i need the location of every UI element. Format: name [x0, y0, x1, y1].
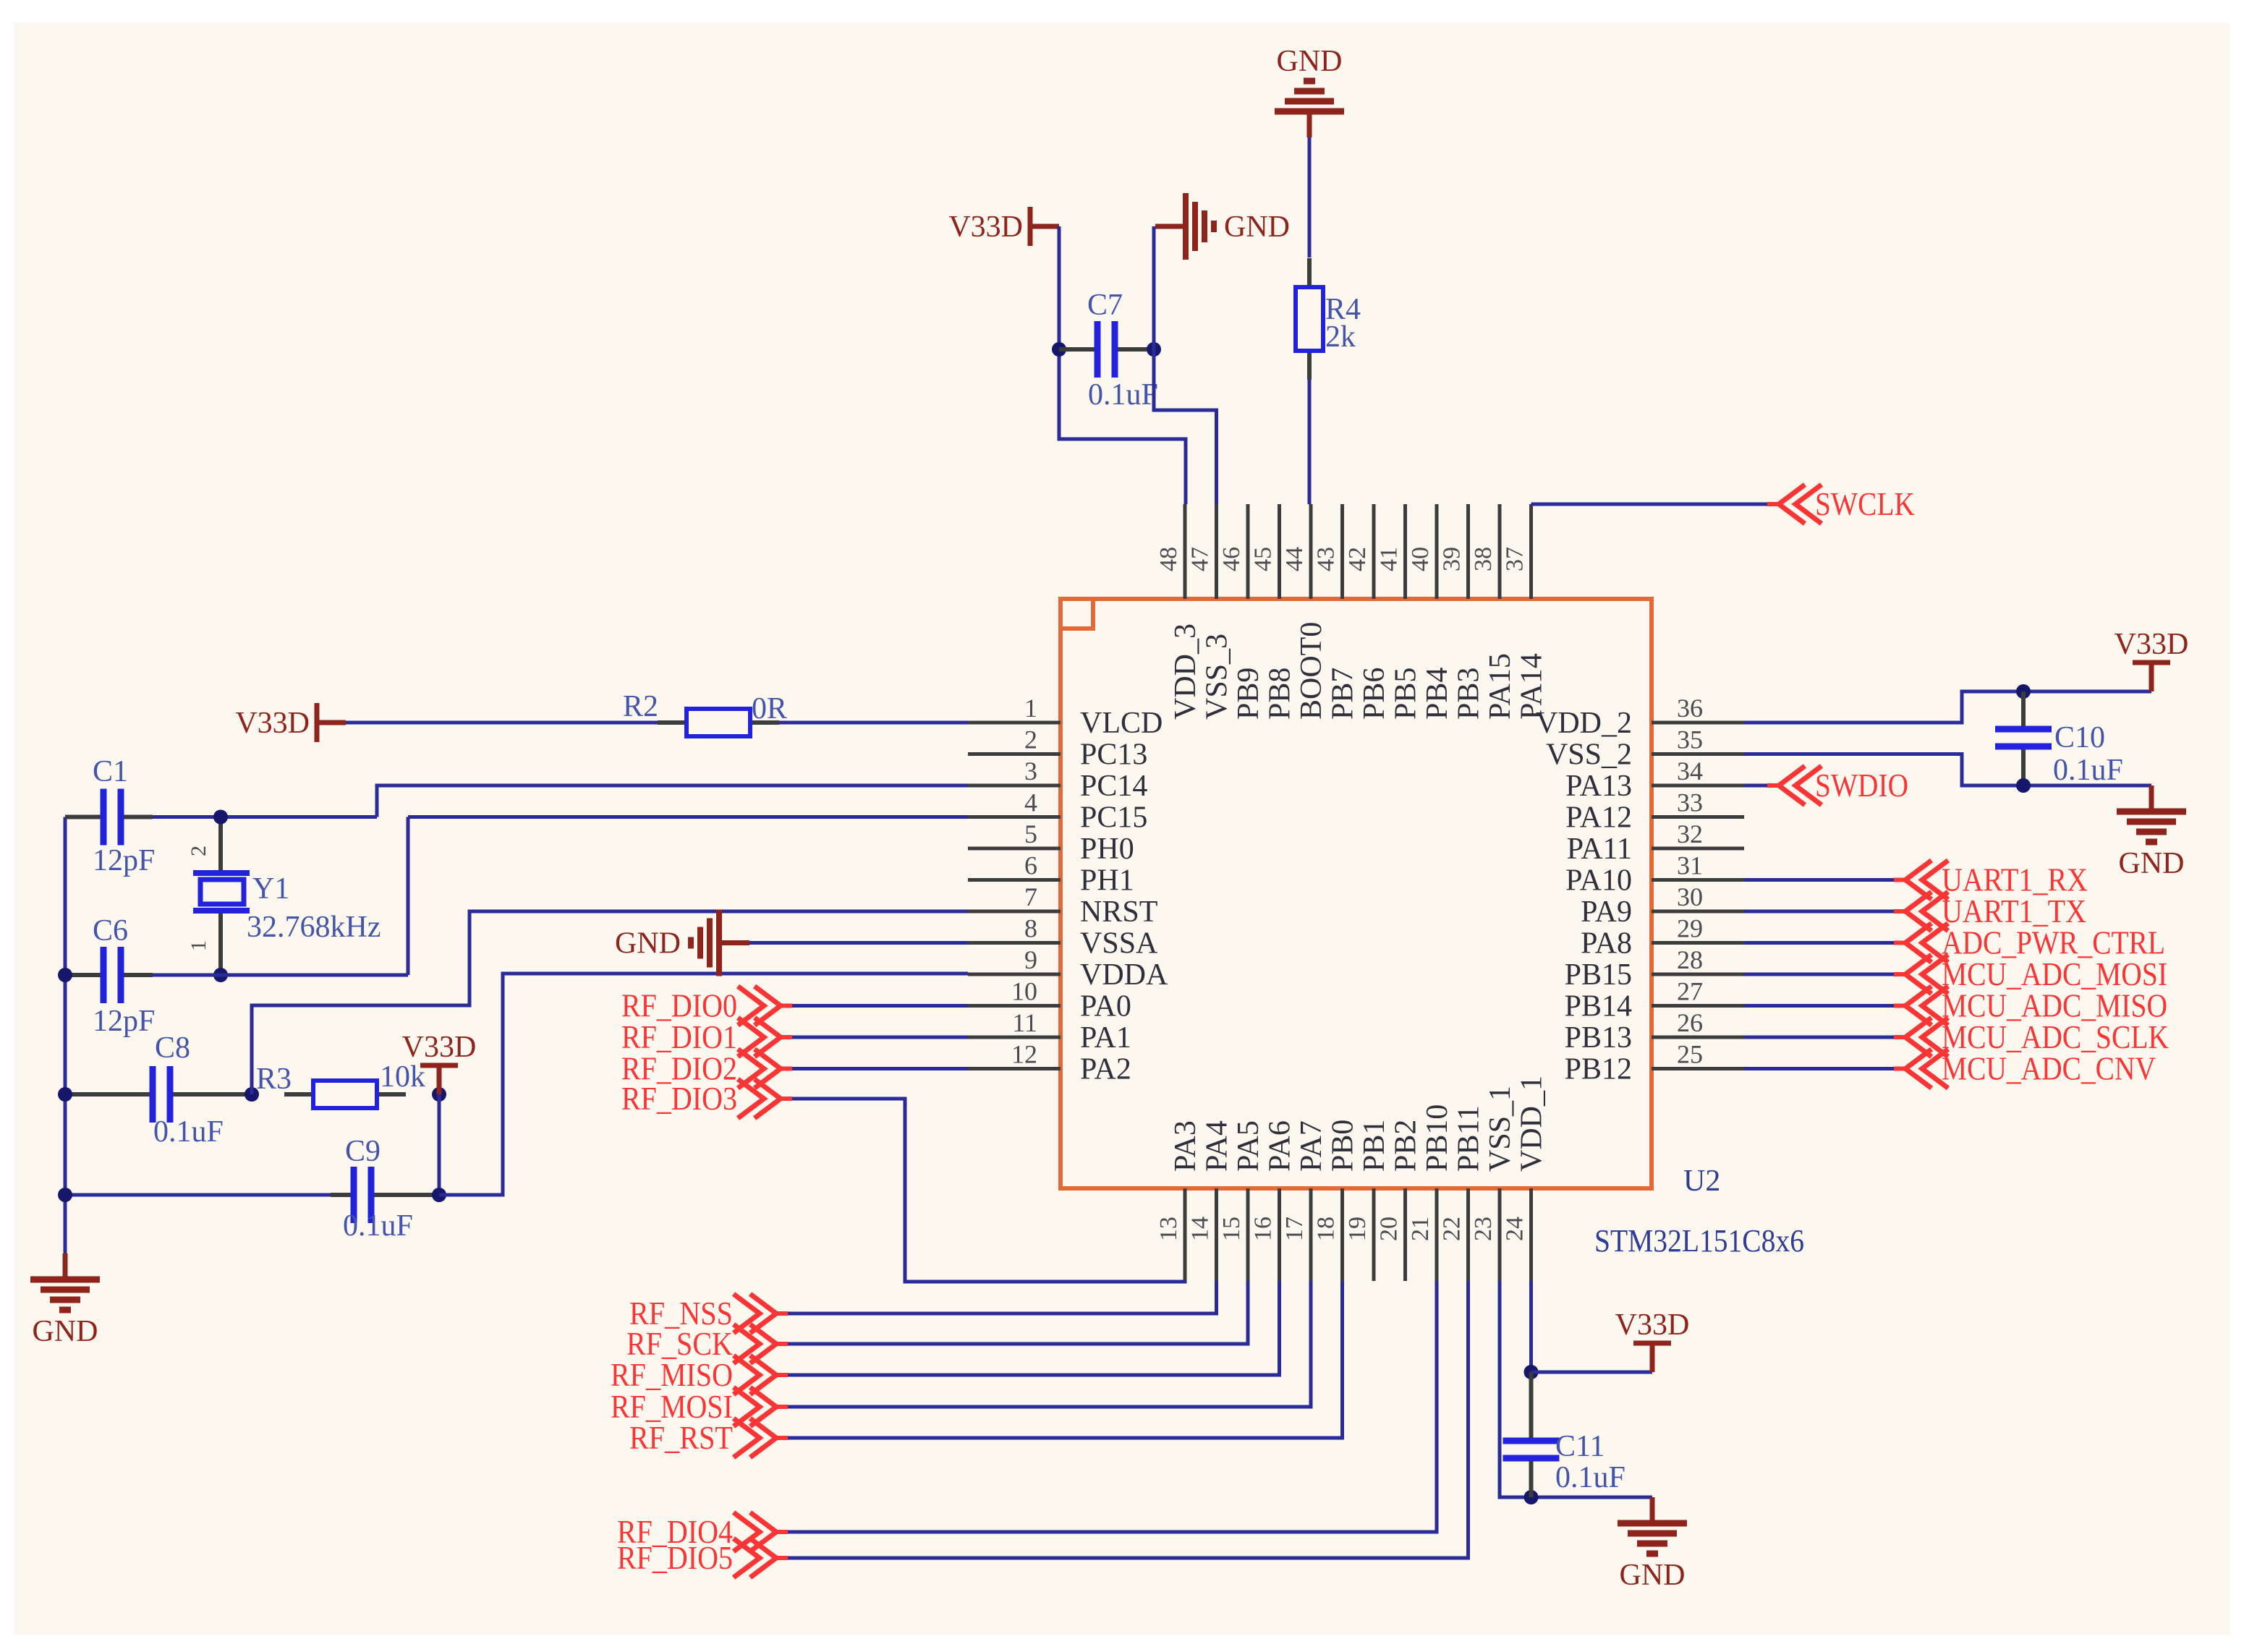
pin 45 PB8 (top)	[1250, 504, 1297, 720]
svg-text:46: 46	[1218, 547, 1245, 571]
svg-text:19: 19	[1344, 1217, 1371, 1241]
pin 2 PC13 (left)	[968, 725, 1147, 772]
svg-text:PA13: PA13	[1565, 770, 1632, 803]
svg-text:V33D: V33D	[402, 1031, 477, 1064]
power GND (left rail)	[30, 1253, 100, 1348]
svg-text:30: 30	[1677, 882, 1703, 911]
wire VSS_1 net	[1500, 1281, 1652, 1497]
net label MCU_ADC_SCLK	[1894, 1018, 2169, 1057]
svg-text:VSS_2: VSS_2	[1546, 738, 1632, 772]
svg-text:VDDA: VDDA	[1080, 958, 1168, 992]
wire VDD_1 net	[1529, 1281, 1533, 1372]
wire RF_NSS net	[776, 1281, 1217, 1313]
wire PC15 net	[407, 817, 410, 976]
net label RF_DIO5	[617, 1538, 788, 1578]
pin 36 VDD_2 (right)	[1536, 694, 1744, 740]
svg-text:28: 28	[1677, 945, 1703, 974]
svg-text:8: 8	[1024, 914, 1037, 943]
pin 1 VLCD (left)	[968, 694, 1163, 740]
wire VSS_2 net	[1744, 754, 2151, 786]
svg-text:C8: C8	[155, 1031, 190, 1065]
svg-text:17: 17	[1281, 1217, 1308, 1241]
svg-text:31: 31	[1677, 851, 1703, 880]
svg-text:18: 18	[1313, 1217, 1340, 1241]
net label UART1_TX	[1894, 892, 2086, 931]
power V33D (R3)	[402, 1031, 477, 1094]
svg-text:22: 22	[1439, 1217, 1466, 1241]
net label RF_DIO0	[621, 987, 792, 1026]
wire RF_DIO0 net	[781, 1004, 968, 1008]
svg-text:20: 20	[1376, 1217, 1403, 1241]
power V33D (C11)	[1615, 1308, 1690, 1372]
svg-text:V33D: V33D	[948, 210, 1023, 244]
junction rail-C8	[58, 1087, 72, 1102]
net label UART1_RX	[1894, 861, 2088, 900]
svg-text:PA2: PA2	[1080, 1053, 1131, 1086]
power GND (C7)	[1155, 193, 1290, 260]
svg-text:R2: R2	[623, 690, 658, 723]
svg-text:15: 15	[1218, 1217, 1245, 1241]
svg-text:48: 48	[1155, 547, 1182, 571]
svg-text:C9: C9	[345, 1135, 381, 1168]
svg-text:PA5: PA5	[1232, 1120, 1265, 1172]
junction C11 top node	[1524, 1365, 1539, 1379]
wire VDD_2 net	[1744, 691, 2151, 723]
svg-text:PB3: PB3	[1453, 668, 1486, 720]
svg-text:25: 25	[1677, 1040, 1703, 1069]
svg-text:1: 1	[1024, 694, 1037, 723]
svg-text:2k: 2k	[1325, 320, 1356, 354]
pin 7 NRST (left)	[968, 882, 1157, 929]
pin 18 PB0 (bottom)	[1313, 1120, 1360, 1281]
wire C1 to PC14/PC15 area	[153, 815, 377, 819]
junction R3-V33D node	[432, 1087, 446, 1102]
capacitor C10	[1995, 691, 2123, 787]
wire SWDIO net	[1744, 784, 1779, 788]
svg-text:RF_RST: RF_RST	[629, 1419, 733, 1456]
wire VSS_3 net	[1154, 226, 1217, 504]
power V33D (C7)	[948, 207, 1059, 246]
svg-text:C1: C1	[93, 755, 128, 788]
svg-text:STM32L151C8x6: STM32L151C8x6	[1594, 1223, 1804, 1259]
svg-text:VDD_1: VDD_1	[1516, 1076, 1549, 1172]
svg-text:2: 2	[187, 846, 211, 856]
pin 26 PB13 (right)	[1565, 1008, 1744, 1055]
pin 16 PA6 (bottom)	[1250, 1120, 1297, 1281]
svg-text:RF_DIO5: RF_DIO5	[617, 1539, 733, 1576]
svg-text:5: 5	[1024, 819, 1037, 848]
svg-text:VDD_3: VDD_3	[1169, 623, 1202, 720]
wire UART1_RX net	[1744, 878, 1905, 882]
svg-text:C7: C7	[1087, 289, 1123, 322]
wire MCU_ADC_CNV net	[1744, 1067, 1905, 1070]
svg-text:2: 2	[1024, 725, 1037, 754]
wire VDD_3 net	[1059, 226, 1186, 504]
svg-text:40: 40	[1407, 547, 1434, 571]
svg-text:C11: C11	[1555, 1430, 1605, 1463]
junction C10 top node	[2016, 684, 2031, 699]
svg-text:VSS_3: VSS_3	[1201, 634, 1234, 720]
power GND (BOOT0 pulldown)	[1275, 45, 1344, 137]
junction C11 bottom node	[1524, 1490, 1539, 1504]
pin 44 BOOT0 (top)	[1281, 504, 1328, 720]
junction C10 bottom node	[2016, 778, 2031, 793]
pin 9 VDDA (left)	[968, 945, 1168, 992]
svg-text:12: 12	[1011, 1040, 1037, 1069]
svg-text:14: 14	[1187, 1217, 1214, 1241]
svg-text:32.768kHz: 32.768kHz	[247, 911, 381, 944]
pin 37 PA14 (top)	[1502, 504, 1549, 720]
svg-text:3: 3	[1024, 757, 1037, 785]
pin 30 PA9 (right)	[1581, 882, 1744, 929]
svg-text:PA15: PA15	[1484, 653, 1517, 720]
svg-text:29: 29	[1677, 914, 1703, 943]
wire VLCD net right	[779, 721, 968, 725]
svg-text:0.1uF: 0.1uF	[1088, 378, 1158, 412]
svg-text:6: 6	[1024, 851, 1037, 880]
svg-text:V33D: V33D	[235, 707, 310, 740]
wire RF_DIO2 net	[781, 1067, 968, 1070]
net label MCU_ADC_CNV	[1894, 1049, 2156, 1089]
svg-text:PA7: PA7	[1295, 1120, 1328, 1172]
pin 39 PB3 (top)	[1439, 504, 1486, 720]
svg-text:45: 45	[1250, 547, 1277, 571]
svg-text:NRST: NRST	[1080, 895, 1157, 929]
svg-text:PB1: PB1	[1358, 1120, 1391, 1172]
pin 21 PB10 (bottom)	[1407, 1104, 1454, 1281]
pin 14 PA4 (bottom)	[1187, 1120, 1234, 1281]
pin 48 VDD_3 (top)	[1155, 504, 1202, 720]
svg-text:PC15: PC15	[1080, 801, 1147, 835]
wire RF_SCK net	[776, 1281, 1248, 1344]
capacitor C11	[1503, 1372, 1625, 1497]
wire SWCLK net	[1531, 503, 1780, 506]
pin 19 PB1 (bottom)	[1344, 1120, 1391, 1281]
pin 27 PB14 (right)	[1565, 977, 1744, 1023]
wire C9 left segment	[65, 1193, 331, 1197]
pin 33 PA12 (right)	[1565, 788, 1744, 835]
net label RF_DIO1	[621, 1018, 792, 1057]
svg-text:PB15: PB15	[1565, 958, 1632, 992]
svg-text:C10: C10	[2054, 721, 2105, 754]
svg-text:27: 27	[1677, 977, 1703, 1006]
net label RF_DIO2	[621, 1049, 792, 1089]
svg-text:38: 38	[1470, 547, 1497, 571]
svg-text:13: 13	[1155, 1217, 1182, 1241]
svg-text:PH0: PH0	[1080, 833, 1134, 866]
wire MCU_ADC_MOSI net	[1744, 973, 1905, 976]
junction NRST node	[245, 1087, 259, 1102]
svg-text:33: 33	[1677, 788, 1703, 817]
net label RF_DIO3	[621, 1079, 792, 1118]
wire RF_MISO net	[776, 1281, 1280, 1375]
svg-text:7: 7	[1024, 882, 1037, 911]
svg-text:1: 1	[187, 940, 211, 951]
pin 12 PA2 (left)	[968, 1040, 1131, 1086]
wire VDDA net	[439, 974, 968, 1195]
wire ADC_PWR_CTRL net	[1744, 941, 1905, 945]
capacitor C7	[1059, 289, 1158, 412]
svg-text:PB2: PB2	[1390, 1120, 1423, 1172]
svg-text:SWCLK: SWCLK	[1815, 485, 1915, 522]
svg-text:PA12: PA12	[1565, 801, 1632, 835]
power V33D (C10)	[2115, 628, 2189, 691]
svg-text:RF_DIO3: RF_DIO3	[621, 1080, 737, 1117]
pin 43 PB7 (top)	[1313, 504, 1360, 720]
svg-text:PB6: PB6	[1358, 668, 1391, 720]
net label RF_SCK	[626, 1324, 788, 1363]
svg-text:PA4: PA4	[1201, 1120, 1234, 1172]
svg-text:24: 24	[1502, 1217, 1529, 1241]
svg-text:26: 26	[1677, 1008, 1703, 1037]
svg-text:PB14: PB14	[1565, 990, 1632, 1023]
svg-text:PA1: PA1	[1080, 1021, 1131, 1055]
pin 4 PC15 (left)	[968, 788, 1147, 835]
wire BOOT0 net	[1308, 380, 1312, 504]
wire RF_RST net	[776, 1281, 1343, 1438]
svg-text:9: 9	[1024, 945, 1037, 974]
svg-text:R3: R3	[256, 1063, 292, 1096]
pin 20 PB2 (bottom)	[1376, 1120, 1423, 1281]
svg-text:PB4: PB4	[1421, 668, 1454, 720]
pin 35 VSS_2 (right)	[1546, 725, 1744, 772]
U2 reference designator	[1683, 1165, 1720, 1198]
svg-text:12pF: 12pF	[93, 1005, 155, 1038]
svg-text:PH1: PH1	[1080, 864, 1134, 898]
wire VSS_3 upper segment	[1152, 226, 1156, 349]
junction C7 left node	[1052, 342, 1066, 357]
wire PC14 net	[377, 785, 968, 817]
pin 13 PA3 (bottom)	[1155, 1120, 1202, 1281]
wire BOOT0 upper wire	[1308, 137, 1312, 257]
net label RF_MISO	[611, 1355, 788, 1395]
resistor R4	[1296, 258, 1361, 380]
svg-text:GND: GND	[1620, 1559, 1686, 1592]
svg-text:VDD_2: VDD_2	[1536, 707, 1632, 740]
svg-text:44: 44	[1281, 547, 1308, 571]
junction crystal top node	[213, 810, 228, 825]
net label SWDIO	[1767, 766, 1908, 805]
svg-text:U2: U2	[1683, 1165, 1720, 1198]
wire V33D to C9	[438, 1094, 441, 1195]
resistor R3	[256, 1060, 425, 1108]
wire MCU_ADC_MISO net	[1744, 1004, 1905, 1008]
svg-text:C6: C6	[93, 914, 128, 948]
svg-text:GND: GND	[33, 1315, 98, 1348]
svg-text:0R: 0R	[752, 692, 787, 725]
svg-text:21: 21	[1407, 1217, 1434, 1241]
wire RF_DIO5 net	[776, 1281, 1469, 1558]
svg-text:PB10: PB10	[1421, 1104, 1454, 1172]
net label MCU_ADC_MOSI	[1894, 955, 2167, 994]
wire RF_MOSI net	[776, 1281, 1311, 1407]
pin 29 PA8 (right)	[1581, 914, 1744, 961]
svg-text:PA6: PA6	[1264, 1120, 1297, 1172]
capacitor C1	[65, 755, 155, 877]
pin 31 PA10 (right)	[1565, 851, 1744, 898]
net label MCU_ADC_MISO	[1894, 987, 2167, 1026]
svg-text:0.1uF: 0.1uF	[1555, 1461, 1625, 1494]
svg-text:32: 32	[1677, 819, 1703, 848]
svg-text:16: 16	[1250, 1217, 1277, 1241]
pin 11 PA1 (left)	[968, 1008, 1131, 1055]
pin 25 PB12 (right)	[1565, 1040, 1744, 1086]
crystal Y1	[187, 817, 381, 976]
wire C6 to crystal	[153, 974, 408, 977]
pin 3 PC14 (left)	[968, 757, 1147, 803]
svg-text:PB13: PB13	[1565, 1021, 1632, 1055]
capacitor C6	[65, 914, 155, 1038]
svg-text:PB12: PB12	[1565, 1053, 1632, 1086]
svg-text:PB8: PB8	[1264, 668, 1297, 720]
power GND (VSSA)	[615, 910, 749, 976]
svg-text:PC13: PC13	[1080, 738, 1147, 772]
pin 17 PA7 (bottom)	[1281, 1120, 1328, 1281]
capacitor C8	[65, 1031, 252, 1149]
svg-text:43: 43	[1313, 547, 1340, 571]
pin 46 PB9 (top)	[1218, 504, 1265, 720]
svg-text:PB9: PB9	[1232, 668, 1265, 720]
svg-text:0.1uF: 0.1uF	[153, 1115, 224, 1149]
wire VLCD net left	[346, 721, 658, 725]
wire RF_DIO1 net	[781, 1036, 968, 1039]
junction C7 right node	[1147, 342, 1161, 357]
svg-text:10k: 10k	[380, 1060, 425, 1094]
power GND (C11)	[1618, 1497, 1687, 1592]
svg-text:4: 4	[1024, 788, 1037, 817]
svg-text:0.1uF: 0.1uF	[343, 1209, 413, 1243]
svg-text:36: 36	[1677, 694, 1703, 723]
wire RF_DIO4 net	[776, 1281, 1437, 1532]
svg-text:0.1uF: 0.1uF	[2053, 754, 2123, 787]
svg-text:VSS_1: VSS_1	[1484, 1086, 1517, 1172]
wire RF_DIO3 net	[781, 1099, 1185, 1282]
pin 40 PB4 (top)	[1407, 504, 1454, 720]
svg-text:41: 41	[1376, 547, 1403, 571]
pin 22 PB11 (bottom)	[1439, 1105, 1486, 1281]
MCU U2 body	[1061, 599, 1652, 1188]
net label RF_MOSI	[611, 1387, 788, 1426]
svg-text:GND: GND	[1277, 45, 1343, 78]
pin 47 VSS_3 (top)	[1187, 504, 1234, 720]
svg-text:PB5: PB5	[1390, 668, 1423, 720]
pin 6 PH1 (left)	[968, 851, 1134, 898]
svg-text:VLCD: VLCD	[1080, 707, 1163, 740]
svg-text:PA0: PA0	[1080, 990, 1131, 1023]
svg-text:39: 39	[1439, 547, 1466, 571]
pin 38 PA15 (top)	[1470, 504, 1517, 720]
svg-text:GND: GND	[2119, 847, 2185, 880]
wire VDD_3 upper segment	[1058, 226, 1061, 349]
svg-text:VSSA: VSSA	[1080, 927, 1158, 961]
pin 34 PA13 (right)	[1565, 757, 1744, 803]
wire VDD_1 to V33D	[1531, 1371, 1653, 1374]
svg-text:GND: GND	[1224, 210, 1290, 244]
svg-text:PA14: PA14	[1516, 653, 1549, 720]
pin 10 PA0 (left)	[968, 977, 1131, 1023]
svg-text:PA3: PA3	[1169, 1120, 1202, 1172]
ground rail (left)	[64, 817, 67, 1254]
svg-text:PA8: PA8	[1581, 927, 1632, 961]
svg-text:PB7: PB7	[1327, 668, 1360, 720]
power GND (C10)	[2117, 785, 2186, 880]
pin 42 PB6 (top)	[1344, 504, 1391, 720]
pin 24 VDD_1 (bottom)	[1502, 1076, 1549, 1281]
svg-text:PA9: PA9	[1581, 895, 1632, 929]
svg-text:PB11: PB11	[1453, 1105, 1486, 1172]
junction C9-VDDA node	[432, 1188, 446, 1202]
svg-text:23: 23	[1470, 1217, 1497, 1241]
pin 15 PA5 (bottom)	[1218, 1120, 1265, 1281]
wire PC15 horizontal	[408, 815, 968, 819]
svg-text:10: 10	[1011, 977, 1037, 1006]
junction rail-C9	[58, 1188, 72, 1202]
svg-text:SWDIO: SWDIO	[1815, 767, 1908, 804]
junction rail-C6	[58, 968, 72, 982]
svg-text:MCU_ADC_CNV: MCU_ADC_CNV	[1942, 1050, 2156, 1087]
net label SWCLK	[1767, 485, 1915, 524]
resistor R2	[623, 690, 787, 736]
svg-text:47: 47	[1187, 547, 1214, 571]
pin 5 PH0 (left)	[968, 819, 1134, 866]
svg-text:11: 11	[1012, 1008, 1037, 1037]
svg-text:37: 37	[1502, 547, 1529, 571]
svg-text:34: 34	[1677, 757, 1703, 785]
pin 41 PB5 (top)	[1376, 504, 1423, 720]
pin 23 VSS_1 (bottom)	[1470, 1086, 1517, 1281]
V33D bar adjust	[1058, 226, 1060, 227]
pin 8 VSSA (left)	[968, 914, 1158, 961]
svg-text:PA11: PA11	[1567, 833, 1632, 866]
svg-text:42: 42	[1344, 547, 1371, 571]
junction crystal bottom node	[213, 968, 228, 982]
svg-text:35: 35	[1677, 725, 1703, 754]
svg-text:GND: GND	[615, 927, 681, 961]
power V33D (R2)	[235, 703, 346, 742]
svg-text:PB0: PB0	[1327, 1120, 1360, 1172]
capacitor C9	[331, 1135, 439, 1243]
svg-text:BOOT0: BOOT0	[1295, 622, 1328, 720]
net label RF_NSS	[629, 1294, 788, 1333]
wire UART1_TX net	[1744, 910, 1905, 914]
net label ADC_PWR_CTRL	[1894, 924, 2165, 963]
U2 part number STM32L151C8x6	[1594, 1223, 1804, 1259]
svg-text:V33D: V33D	[1615, 1308, 1690, 1342]
svg-text:12pF: 12pF	[93, 844, 155, 877]
svg-text:PC14: PC14	[1080, 770, 1147, 803]
svg-text:V33D: V33D	[2115, 628, 2189, 661]
pin 32 PA11 (right)	[1567, 819, 1744, 866]
net label RF_RST	[629, 1418, 788, 1457]
net label RF_DIO4	[617, 1512, 788, 1551]
wire NRST net	[252, 911, 968, 1094]
VSSA ground wire	[749, 941, 968, 945]
wire MCU_ADC_SCLK net	[1744, 1036, 1905, 1039]
pin 28 PB15 (right)	[1565, 945, 1744, 992]
svg-text:PA10: PA10	[1565, 864, 1632, 898]
svg-text:Y1: Y1	[252, 872, 289, 906]
